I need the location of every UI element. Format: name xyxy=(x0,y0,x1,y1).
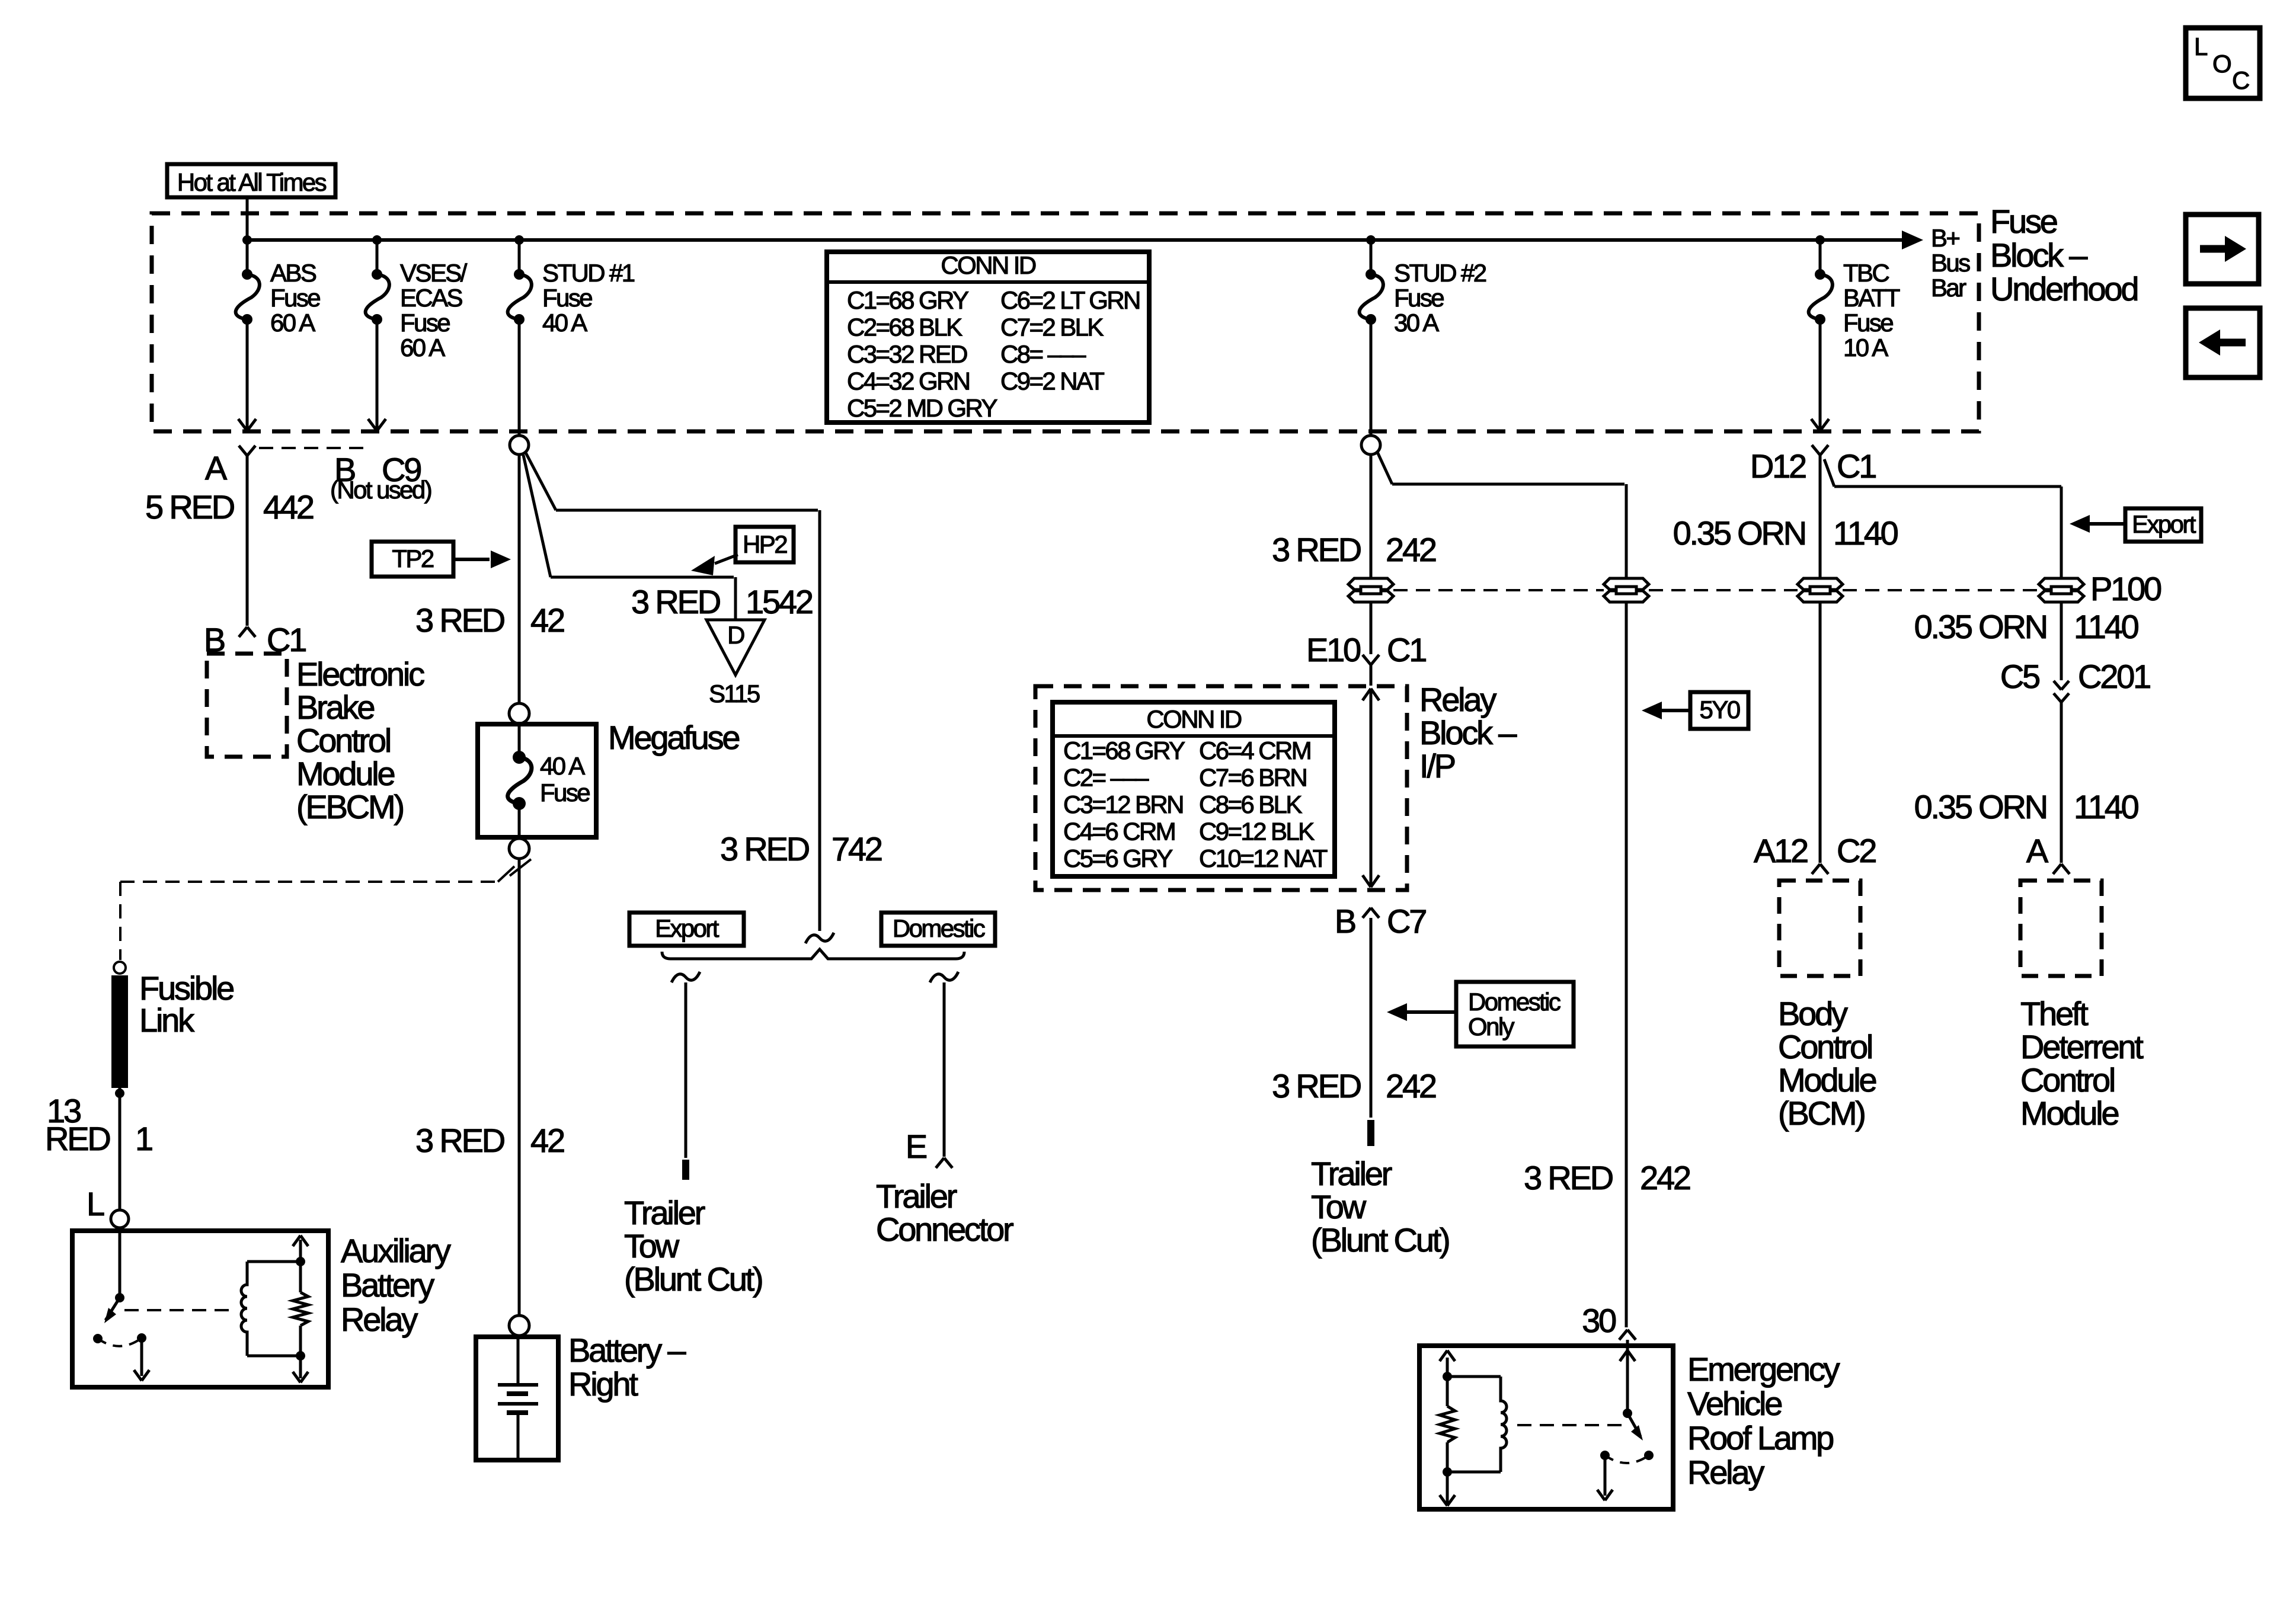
svg-text:3 RED: 3 RED xyxy=(415,601,504,639)
svg-text:Fuse: Fuse xyxy=(540,779,590,806)
svg-text:Relay: Relay xyxy=(1687,1454,1764,1491)
svg-text:A: A xyxy=(2026,832,2049,869)
svg-text:(Blunt Cut): (Blunt Cut) xyxy=(1311,1221,1449,1259)
svg-text:Trailer: Trailer xyxy=(1311,1155,1392,1192)
svg-text:C4=32 GRN: C4=32 GRN xyxy=(847,367,970,395)
svg-text:Theft: Theft xyxy=(2020,995,2089,1032)
svg-text:C7=2 BLK: C7=2 BLK xyxy=(1000,313,1104,341)
svg-text:Domestic: Domestic xyxy=(1468,988,1560,1016)
svg-text:5 RED: 5 RED xyxy=(145,488,234,526)
svg-text:HP2: HP2 xyxy=(743,530,787,558)
svg-text:C7=6 BRN: C7=6 BRN xyxy=(1199,764,1306,792)
svg-text:Vehicle: Vehicle xyxy=(1687,1385,1782,1422)
svg-text:D12: D12 xyxy=(1750,447,1806,485)
svg-text:B+: B+ xyxy=(1931,224,1959,252)
svg-text:TP2: TP2 xyxy=(392,545,433,572)
svg-text:C9=2 NAT: C9=2 NAT xyxy=(1000,367,1104,395)
svg-text:Control: Control xyxy=(2020,1061,2114,1099)
svg-text:Module: Module xyxy=(1778,1061,1876,1099)
svg-text:L: L xyxy=(87,1185,104,1222)
svg-text:STUD #1: STUD #1 xyxy=(542,259,635,287)
svg-text:C4=6 CRM: C4=6 CRM xyxy=(1063,818,1175,846)
svg-text:Bar: Bar xyxy=(1931,274,1966,302)
svg-text:E: E xyxy=(906,1128,926,1165)
svg-text:1140: 1140 xyxy=(2074,608,2138,645)
svg-text:Battery: Battery xyxy=(341,1266,434,1304)
svg-text:Brake: Brake xyxy=(296,689,374,726)
svg-text:0.35 ORN: 0.35 ORN xyxy=(1914,608,2046,645)
svg-text:Deterrent: Deterrent xyxy=(2020,1028,2144,1065)
svg-text:30: 30 xyxy=(1582,1302,1616,1339)
svg-text:ABS: ABS xyxy=(270,259,316,287)
svg-text:Bus: Bus xyxy=(1931,249,1970,277)
svg-text:Fuse: Fuse xyxy=(1394,284,1444,312)
svg-text:C2: C2 xyxy=(1837,832,1876,869)
svg-text:1140: 1140 xyxy=(1833,514,1898,552)
svg-text:3 RED: 3 RED xyxy=(1524,1159,1613,1196)
svg-text:Auxiliary: Auxiliary xyxy=(341,1232,451,1269)
svg-text:Export: Export xyxy=(655,914,720,942)
svg-text:60 A: 60 A xyxy=(270,309,315,337)
svg-text:STUD #2: STUD #2 xyxy=(1394,259,1486,287)
svg-text:Electronic: Electronic xyxy=(296,655,424,693)
svg-text:42: 42 xyxy=(530,1122,564,1159)
svg-text:C9=12 BLK: C9=12 BLK xyxy=(1199,818,1315,846)
svg-text:3 RED: 3 RED xyxy=(631,583,720,620)
svg-text:Emergency: Emergency xyxy=(1687,1350,1840,1388)
svg-text:Domestic: Domestic xyxy=(893,914,985,942)
svg-text:Export: Export xyxy=(2132,510,2196,538)
svg-text:Fuse: Fuse xyxy=(542,284,592,312)
svg-text:C5: C5 xyxy=(2000,658,2039,695)
svg-text:S115: S115 xyxy=(709,680,760,708)
svg-text:CONN ID: CONN ID xyxy=(1146,705,1241,733)
svg-text:(Not used): (Not used) xyxy=(330,476,431,504)
svg-text:(BCM): (BCM) xyxy=(1778,1094,1865,1132)
svg-text:C5=6 GRY: C5=6 GRY xyxy=(1063,844,1173,872)
svg-text:242: 242 xyxy=(1640,1159,1690,1196)
svg-text:TBC: TBC xyxy=(1843,259,1889,287)
svg-text:I/P: I/P xyxy=(1419,747,1455,785)
svg-text:E10: E10 xyxy=(1306,631,1360,668)
svg-text:C2=68 BLK: C2=68 BLK xyxy=(847,313,962,341)
svg-text:742: 742 xyxy=(832,830,882,868)
svg-text:CONN ID: CONN ID xyxy=(941,251,1035,279)
svg-text:Body: Body xyxy=(1778,995,1848,1032)
svg-text:C1=68 GRY: C1=68 GRY xyxy=(1063,737,1185,764)
svg-text:0.35 ORN: 0.35 ORN xyxy=(1673,514,1805,552)
svg-text:60 A: 60 A xyxy=(400,334,445,361)
svg-text:Only: Only xyxy=(1468,1013,1515,1041)
svg-text:Underhood: Underhood xyxy=(1990,270,2137,308)
svg-text:42: 42 xyxy=(530,601,564,639)
svg-text:Module: Module xyxy=(2020,1094,2119,1132)
svg-text:Fuse: Fuse xyxy=(1843,309,1893,337)
svg-text:Trailer: Trailer xyxy=(624,1194,705,1231)
svg-text:BATT: BATT xyxy=(1843,284,1900,312)
svg-text:Roof Lamp: Roof Lamp xyxy=(1687,1419,1833,1457)
svg-text:Right: Right xyxy=(568,1365,638,1403)
svg-text:40 A: 40 A xyxy=(540,752,585,780)
svg-text:3 RED: 3 RED xyxy=(720,830,809,868)
svg-text:Fuse: Fuse xyxy=(1990,203,2057,240)
svg-text:C1=68 GRY: C1=68 GRY xyxy=(847,286,969,314)
svg-text:RED: RED xyxy=(45,1120,110,1157)
svg-text:Megafuse: Megafuse xyxy=(608,719,739,756)
svg-text:VSES/: VSES/ xyxy=(400,259,468,287)
svg-text:B: B xyxy=(1335,902,1355,940)
svg-text:Link: Link xyxy=(139,1001,195,1039)
svg-text:242: 242 xyxy=(1386,1067,1436,1105)
svg-text:1: 1 xyxy=(135,1120,152,1157)
svg-text:3 RED: 3 RED xyxy=(1272,531,1361,568)
svg-text:C3=32 RED: C3=32 RED xyxy=(847,340,967,368)
svg-text:O: O xyxy=(2212,50,2231,78)
svg-text:Trailer: Trailer xyxy=(876,1177,957,1215)
svg-text:Fuse: Fuse xyxy=(270,284,320,312)
svg-text:P100: P100 xyxy=(2090,570,2161,607)
svg-text:1542: 1542 xyxy=(746,583,813,620)
svg-text:C1: C1 xyxy=(1837,447,1876,485)
svg-text:Module: Module xyxy=(296,755,395,792)
svg-text:Control: Control xyxy=(296,722,390,759)
svg-text:C: C xyxy=(2232,66,2249,94)
svg-text:C1: C1 xyxy=(267,621,306,658)
svg-text:Relay: Relay xyxy=(341,1301,418,1338)
svg-text:C8=6 BLK: C8=6 BLK xyxy=(1199,790,1302,818)
svg-text:Tow: Tow xyxy=(624,1227,680,1265)
svg-text:(EBCM): (EBCM) xyxy=(296,788,403,825)
svg-text:A: A xyxy=(205,449,228,486)
svg-text:Tow: Tow xyxy=(1311,1188,1367,1225)
svg-text:(Blunt Cut): (Blunt Cut) xyxy=(624,1260,762,1298)
svg-text:C8= –––: C8= ––– xyxy=(1000,340,1086,368)
svg-text:C201: C201 xyxy=(2078,658,2150,695)
svg-text:30 A: 30 A xyxy=(1394,309,1439,337)
svg-text:Block –: Block – xyxy=(1419,714,1517,751)
svg-text:5Y0: 5Y0 xyxy=(1700,696,1740,724)
svg-text:3 RED: 3 RED xyxy=(1272,1067,1361,1105)
svg-text:Fuse: Fuse xyxy=(400,309,450,337)
svg-text:C10=12 NAT: C10=12 NAT xyxy=(1199,844,1328,872)
svg-text:C2= –––: C2= ––– xyxy=(1063,764,1149,792)
svg-text:Control: Control xyxy=(1778,1028,1872,1065)
svg-text:C7: C7 xyxy=(1387,902,1426,940)
svg-text:0.35 ORN: 0.35 ORN xyxy=(1914,788,2046,825)
svg-text:C6=4 CRM: C6=4 CRM xyxy=(1199,737,1310,764)
svg-text:A12: A12 xyxy=(1754,832,1808,869)
svg-text:C5=2 MD GRY: C5=2 MD GRY xyxy=(847,394,997,422)
svg-text:3 RED: 3 RED xyxy=(415,1122,504,1159)
svg-text:Battery –: Battery – xyxy=(568,1331,686,1369)
svg-text:D: D xyxy=(727,621,744,649)
svg-text:Hot at All Times: Hot at All Times xyxy=(177,168,327,196)
svg-text:C1: C1 xyxy=(1387,631,1426,668)
svg-text:Block –: Block – xyxy=(1990,236,2088,274)
svg-text:Relay: Relay xyxy=(1419,681,1496,718)
svg-text:10 A: 10 A xyxy=(1843,334,1888,361)
svg-text:C6=2 LT GRN: C6=2 LT GRN xyxy=(1000,286,1140,314)
svg-text:ECAS: ECAS xyxy=(400,284,463,312)
svg-text:442: 442 xyxy=(263,488,314,526)
svg-text:C3=12 BRN: C3=12 BRN xyxy=(1063,790,1183,818)
svg-text:1140: 1140 xyxy=(2074,788,2138,825)
svg-text:242: 242 xyxy=(1386,531,1436,568)
svg-text:B: B xyxy=(204,621,225,658)
svg-text:L: L xyxy=(2194,33,2207,60)
svg-text:Connector: Connector xyxy=(876,1211,1013,1248)
svg-text:40 A: 40 A xyxy=(542,309,587,337)
